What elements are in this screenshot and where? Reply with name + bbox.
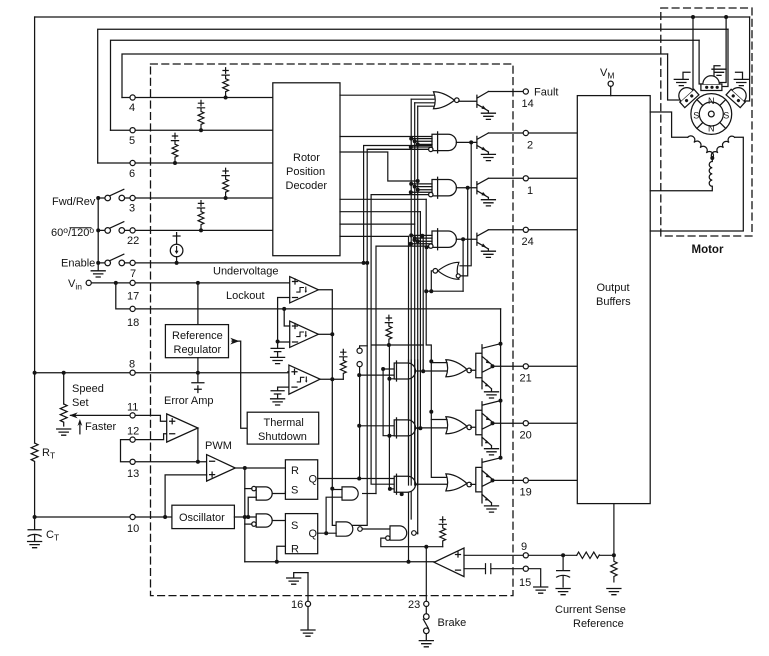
resistor horizontal sense [577,552,600,558]
svg-text:24: 24 [522,236,534,248]
wire: comparator minus through cap to pin15 [464,564,523,574]
wire: gate-b output to latch2 S [272,520,285,522]
svg-text:N: N [708,124,715,134]
svg-text:Brake: Brake [438,617,467,629]
wire: fault line to pin14 [488,91,523,93]
wire: pin9 sense network [528,554,614,556]
wire: pin13 link to pin12 [121,440,130,462]
wire: pin1 line [488,177,577,179]
svg-text:Reference: Reference [573,618,624,630]
wire: enable risers [364,146,432,263]
wire: sensor line4 drop to left sensor [668,54,685,100]
wire: pin3 line with switch [98,197,273,199]
wire: circle-tap lower to latch1 Q branch [359,367,361,479]
gate e: brake NAND [390,526,407,540]
svg-text:22: 22 [127,235,139,247]
wire: PWM plus from oscillator line [165,475,207,517]
resistor pullup on pin3 line [222,168,229,198]
wire: pot wiper to pin11 [71,414,130,416]
wire: gate-d output to gate-e [362,528,390,530]
wire: pin8 line from outer rail to op3 [35,372,289,374]
node dots base branches [461,140,473,241]
wire: gate-a bubble input from PWM branch [245,488,252,490]
darlington stage pin 19 [471,456,503,512]
svg-text:7: 7 [130,268,136,280]
svg-text:VM: VM [600,67,614,81]
pin circles 21 20 19 [523,364,528,369]
resistor Rg [385,315,392,345]
gate a: AND driving latch1 S [256,487,272,500]
wire: op2 minus to cap-ground [278,341,290,343]
svg-text:60o/120o: 60o/120o [51,225,94,239]
node dots sense [561,553,616,557]
svg-text:13: 13 [127,468,139,480]
svg-text:8: 8 [129,359,135,371]
wire: latch1 Q to 19A gate [318,478,395,480]
node dots PWM/osc [33,460,247,519]
svg-text:Decoder: Decoder [286,180,328,192]
wire: op2 plus up to Vin/18 line [284,309,290,326]
wire: Vin line to pin17 and UV comparator [91,282,289,284]
wire: pin22 line with switch [98,229,273,231]
svg-text:Output: Output [597,282,630,294]
comparator current sense [434,548,464,577]
stator winding phase C [650,137,743,231]
node dots latch inputs [246,515,279,564]
OR-f gate output drop [431,271,433,291]
resistor pullup on op3 output [340,349,347,379]
AND gate pin 24 [432,231,456,247]
wire: AND2 output to base [456,141,477,143]
wire: pin4 line into decoder with pullup node [122,97,273,99]
wire: decoder output 7 [340,235,409,237]
svg-text:4: 4 [129,102,135,114]
gate 21N NOR [446,360,472,377]
wire: 21A input rows [383,345,394,489]
wire: comparator output rail [245,561,434,563]
svg-text:Regulator: Regulator [174,344,222,356]
wire: PWM output to latch R [235,467,285,469]
ground below CT [28,542,42,548]
svg-text:RT: RT [42,447,55,461]
svg-text:1: 1 [527,185,533,197]
wire: outer top rail (sensor line 1) to motor [35,16,750,18]
gate b: AND driving latch2 S [256,514,272,527]
ground for right sensor [736,72,743,79]
svg-text:S: S [291,520,298,532]
wire: pin2 line [488,132,577,134]
hall sensor right [726,83,750,107]
svg-text:Oscillator: Oscillator [179,512,225,524]
resistor speed set potentiometer [60,404,67,426]
wire: row375 from circle branch to 21A gate [360,374,395,376]
svg-text:Fault: Fault [534,87,558,99]
resistor pullup at comparator plus rail [439,517,446,547]
hall sensor left [674,83,698,107]
svg-text:Set: Set [72,397,89,409]
wire: 20A mid row [394,427,420,429]
hall sensor middle [701,84,722,91]
wire: pin16 drop [307,573,309,630]
gate 19N NOR [446,474,472,491]
svg-text:Reference: Reference [172,330,223,342]
svg-text:S: S [693,110,699,120]
svg-text:10: 10 [127,523,139,535]
wire: 21N upper input [431,362,447,364]
resistor pullup on pin5 line [197,100,204,130]
bus vertical v426.2 with jog to NOR-upper feed [426,199,446,477]
op-amp UV lockout 1 [290,277,319,303]
box: oscillator [172,505,235,528]
wire: decoder output 5 [340,211,420,213]
switch Fwd/Rev [105,195,111,201]
gate 20A bottom AND [394,420,415,436]
wire: latch1 R/S labels done in text; latch Q wires [414,483,416,485]
svg-text:19: 19 [520,487,532,499]
wire: AND2 input stubs [411,139,433,147]
wire: decoder output 6 [340,223,415,225]
wire: sensor line 4 from pin4 riser [122,54,668,98]
box: output buffers [577,96,650,504]
driver rail from Vin line down the bottom stages [500,309,502,458]
node dots sensor line1 [691,15,728,19]
wire: pin13 feedback line to PWM minus [135,461,206,463]
op-amp UV lockout 2 [290,321,319,347]
resistor RT on outer rail [31,443,38,517]
switch bus Fwd/Rev to Enable ground [97,198,99,263]
latch 1 (R-S top) [285,460,317,500]
svg-text:2: 2 [527,140,533,152]
wire: pin18/Vin long line to driver rail [131,308,500,310]
wire: pin11 to error amp plus [135,415,167,421]
svg-text:Faster: Faster [85,421,117,433]
wire: sensor line 3 from pin5 riser [111,40,700,130]
wire: OB bottom drop [613,504,615,556]
resistor sense divider vertical [611,555,617,582]
svg-text:Vin: Vin [68,278,82,292]
fault NOR gate [434,92,460,109]
latch 2 (S-R bottom) [285,514,317,554]
arrow: faster annotation [79,422,81,434]
wire: pin19 output line [493,479,578,481]
svg-text:18: 18 [127,317,139,329]
svg-text:R: R [291,544,299,556]
rotor shaft [708,111,714,117]
wire: Vin branch down to pin18 [116,283,131,309]
wire: gate-c lower input from latch2 Q [326,497,342,533]
wire: gate-e output rising [416,532,418,535]
svg-text:11: 11 [127,402,138,414]
wire: pin15 to ground [528,569,540,586]
capacitor CT on outer rail [28,517,41,541]
wire: OR-f inputs from top-stage branches [460,142,471,276]
wire: v376 from p24 gate bubble row down to gate-c out [376,246,431,493]
wire: outer left rail from top corner down to RT [34,17,36,443]
wire: 20A top row from latch Q branch [359,425,394,427]
gate 19A bottom AND [394,476,415,492]
wire: refreg feed from Vin line [197,283,199,325]
redraw bus verticals over gates [409,360,418,485]
VM terminal [610,86,612,95]
svg-text:N: N [708,96,715,106]
wire: sensor line3 drop [699,40,703,84]
wire: fault NOR input stubs [411,99,434,106]
wire: thermal shutdown output to refreg arrow [232,341,247,428]
svg-text:Rotor: Rotor [293,152,320,164]
wire: pin21 output line [493,365,578,367]
transistor pin2 driver [477,133,496,161]
ground for left sensor [683,72,690,79]
wire: oscillator output [234,516,256,518]
box: thermal shutdown [247,412,319,444]
bus vertical v414.7 rising to fault NOR [414,103,416,484]
pin9 circle [523,553,528,558]
svg-text:R: R [291,465,299,477]
svg-text:Thermal: Thermal [264,417,304,429]
bus vertical v423.2 [422,236,424,372]
svg-text:S: S [723,110,729,120]
bus vertical v420.4 [419,212,421,429]
wire: brake vertical to pin 23 [425,547,427,602]
wire: op3 minus to cap-ground [271,387,289,399]
PWM comparator triangle [207,455,236,482]
wire: pin24 line [488,229,577,231]
switch 60/120 [105,228,111,234]
svg-text:Speed: Speed [72,383,104,395]
wire: gate-c output to v376 [363,493,376,495]
wire: pin5 line into decoder [111,129,273,131]
wire: op3 output to bus and pullup [320,378,343,380]
pin15 circle [523,566,528,571]
current source on enable line [173,233,180,263]
wire: comparator plus from pin9 [464,554,523,556]
dashed motor box [661,8,752,236]
svg-text:Buffers: Buffers [596,296,631,308]
wire: sensor line1 end drop to right sensor [742,17,750,101]
wire: op1 output to fault bus [318,290,332,335]
gate c: 3-input AND beside latch1 [342,487,358,500]
svg-text:21: 21 [520,373,532,385]
resistor pullup on pin6 line [171,133,178,163]
box: reference regulator [165,325,228,358]
svg-text:Lockout: Lockout [226,290,265,302]
node: junction dots on switch bus [96,96,227,265]
wire: gate-a output to latch1 S [272,492,285,494]
error amp triangle [167,414,198,442]
switch Enable [105,260,111,266]
wire: row345 with resistor Rg [371,344,423,346]
darlington stage pin 21 [471,342,503,398]
node dots op outputs [276,332,335,381]
svg-text:Shutdown: Shutdown [258,431,307,443]
svg-text:Q: Q [309,528,318,540]
bus vertical v408.5 [408,236,410,561]
svg-text:3: 3 [129,203,135,215]
pin 16 circle [305,601,310,606]
wire: PWM out branch down to gate-a [244,468,246,562]
gate 21A bottom AND [394,363,415,379]
wire: speed pot branch from pin8 line [63,373,65,404]
wire: decoder output 1 to fault NOR [340,94,434,96]
wire: decoder output 3 stepped [340,152,418,181]
gate 20N NOR [446,417,472,434]
svg-text:S: S [291,485,298,497]
rotor pole gaps [697,100,726,129]
transistor fault driver [459,92,496,120]
stator winding phase A [650,112,688,137]
svg-text:CT: CT [46,529,59,543]
wire: 20N upper input [431,419,447,421]
svg-text:16: 16 [291,599,303,611]
wire: op3 plus from pin8 line (y372) [288,371,289,373]
ground for middle sensor [714,66,720,76]
capacitor + ground at op1/2 minus node [271,342,284,358]
wire: AND outputs to NOR inputs [416,371,449,484]
svg-text:Fwd/Rev: Fwd/Rev [52,196,96,208]
wire: error amp output down to feedback/pin13 line [197,428,199,462]
rotor inner ring [699,102,723,126]
svg-text:12: 12 [127,426,139,438]
AND gate pin 1 [432,180,456,196]
node dots on pin8 line [33,281,287,375]
wire: pin6 line into decoder [98,162,273,164]
node dots weave [324,179,433,564]
svg-text:Undervoltage: Undervoltage [213,266,278,278]
darlington stage pin 20 [471,399,503,455]
svg-text:17: 17 [127,291,139,303]
wire: v463 from pin24 base [462,239,464,291]
wire: enable riser v367.2 down to gate-d [336,263,367,526]
resistor pullup on pin22 line [197,201,204,231]
wire: pin12 to error amp minus [135,434,167,440]
overline on 120 [70,227,92,229]
wire: decoder output 4 [340,198,426,200]
wire: latch2 Q to gate-d [318,532,336,534]
dashed IC boundary box [151,64,514,596]
wire: sensor line2 drop [722,29,728,86]
transistor pin1 driver [477,178,496,206]
transistor pin24 driver [477,230,496,258]
rotor outer ring [691,94,732,135]
op-amp 3 (pin 8 comparator) [289,365,320,394]
wire: op2 output joining fault bus [318,333,332,335]
svg-text:Current Sense: Current Sense [555,604,626,616]
svg-text:6: 6 [129,168,135,180]
svg-text:5: 5 [129,135,135,147]
wire: gate-c top input from fault bus [332,489,342,491]
svg-text:15: 15 [519,577,531,589]
wire: pin7 enable line [98,262,363,264]
resistor pullup on pin4 line [222,68,229,98]
substrate ground to pin16 [294,573,308,578]
power tap plus below refreg [192,373,204,393]
wire: sensor line 2 from pin6 riser [98,29,728,163]
wire: gate-b bubble input from comparator rail [245,523,252,525]
pin23 circle and brake switch [424,601,429,606]
svg-text:20: 20 [520,430,532,442]
stator winding phase B vertical [650,158,712,191]
gate OR-f mirrored NOR [433,262,459,279]
svg-text:9: 9 [521,541,527,553]
wire: decoder output 2 to AND2 gate [340,136,432,138]
wire: circle-tap upper [360,346,368,348]
wire: op1 minus from shared node [278,298,290,342]
wire: sensor line1 taps [693,17,726,93]
svg-text:14: 14 [522,98,534,110]
box: rotor position decoder [273,83,340,256]
fault bus vertical from op outputs down to latch gates [332,334,336,525]
AND gate pin 2 [432,134,456,150]
wire: gate-a lower input from osc line [248,497,256,517]
svg-text:Enable: Enable [61,258,95,270]
capacitor sense filter [557,555,570,587]
svg-text:PWM: PWM [205,440,232,452]
wire: horizontal 291.2 linking OR-f and v463 [426,290,463,292]
left pin circles column [130,95,135,100]
ground below speed pot [57,429,71,435]
svg-text:Error Amp: Error Amp [164,395,214,407]
wire: pin20 output line [493,422,578,424]
bus vertical v417.7 from out3, down to brake gate [417,106,419,533]
svg-text:Position: Position [286,166,325,178]
wire: gate-e bubble input from brake line [381,538,443,547]
wire: v371.1 from p1 gate bubble row down [371,195,431,485]
ground below pin 16 [301,630,315,636]
wire: pin10 oscillator line [35,516,172,518]
svg-text:Q: Q [309,474,318,486]
bus vertical v411.2 rising to fault NOR [410,99,412,519]
svg-text:Motor: Motor [692,244,724,256]
wire: refreg bottom to pin8 line [197,358,199,373]
svg-text:23: 23 [408,599,420,611]
wire: latch2 R input from comparator rail [277,546,286,562]
ground below enable switch bus [97,263,99,271]
gate d: NAND after latch2 [336,522,353,536]
